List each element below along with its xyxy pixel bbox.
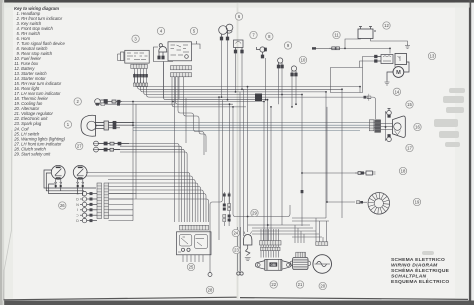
svg-text:GBI: GBI <box>270 263 276 267</box>
svg-text:12: 12 <box>384 23 389 28</box>
svg-text:D: D <box>76 197 79 201</box>
svg-text:25: 25 <box>189 265 194 270</box>
svg-text:27: 27 <box>77 144 82 149</box>
svg-text:14: 14 <box>395 89 400 94</box>
svg-text:19: 19 <box>415 200 420 205</box>
svg-text:29. Start safety unit: 29. Start safety unit <box>13 151 51 156</box>
svg-text:15: 15 <box>407 102 412 107</box>
svg-text:26: 26 <box>60 203 65 208</box>
svg-text:24: 24 <box>233 231 238 236</box>
svg-text:23: 23 <box>234 248 239 253</box>
svg-text:N: N <box>76 203 79 207</box>
svg-text:D: D <box>76 219 79 223</box>
svg-text:21: 21 <box>298 282 303 287</box>
svg-text:WIRING DIAGRAM: WIRING DIAGRAM <box>391 263 438 269</box>
svg-text:≡: ≡ <box>76 192 78 196</box>
svg-text:29: 29 <box>252 211 257 216</box>
svg-text:28: 28 <box>208 288 213 293</box>
svg-text:⊃: ⊃ <box>76 214 79 218</box>
svg-text:16: 16 <box>415 125 420 130</box>
svg-text:I: I <box>77 208 78 212</box>
svg-text:17: 17 <box>407 146 412 151</box>
svg-text:20: 20 <box>320 284 325 289</box>
svg-text:M: M <box>396 70 401 76</box>
svg-text:13: 13 <box>430 54 435 59</box>
svg-text:SCHALTPLAN: SCHALTPLAN <box>391 274 426 280</box>
svg-text:22: 22 <box>271 282 276 287</box>
svg-text:11: 11 <box>334 33 339 38</box>
svg-text:SCHEMA ELETTRICO: SCHEMA ELETTRICO <box>391 257 445 263</box>
svg-text:10: 10 <box>301 58 306 63</box>
svg-text:18: 18 <box>401 169 406 174</box>
